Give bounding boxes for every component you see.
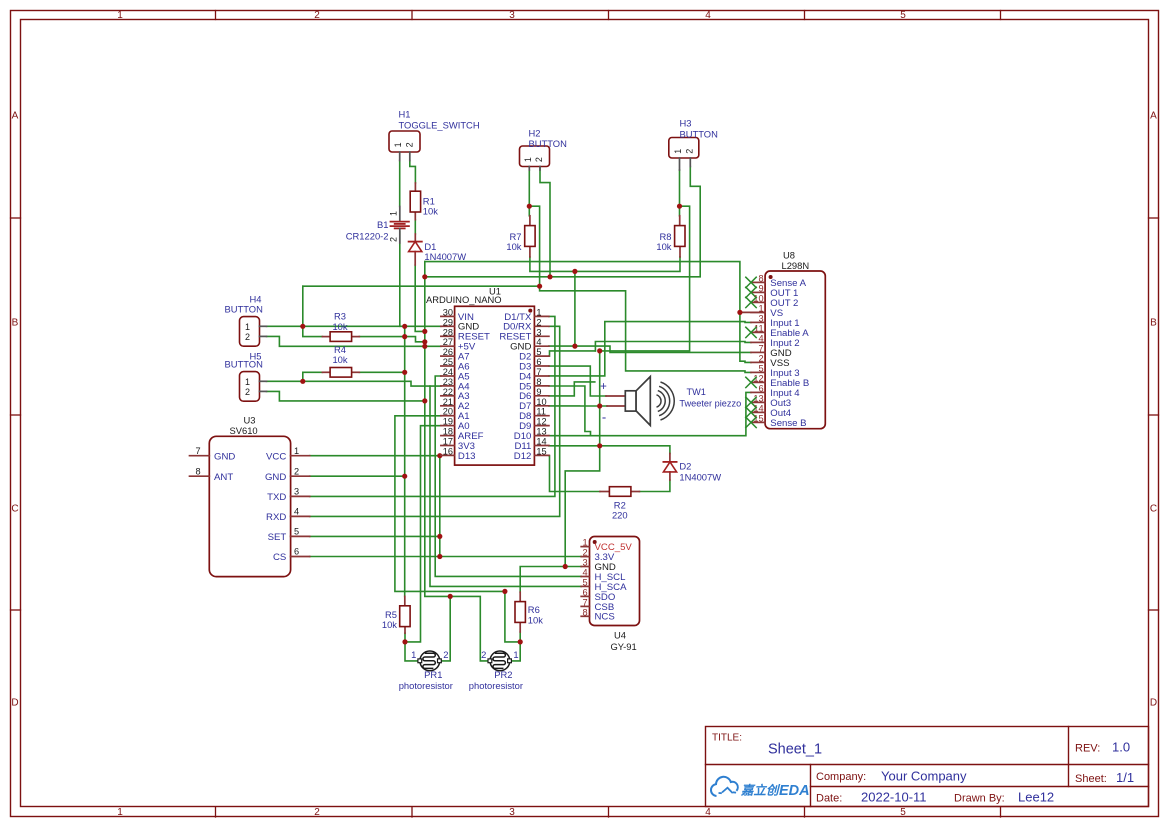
svg-text:8: 8 xyxy=(195,466,200,476)
svg-text:4: 4 xyxy=(705,807,711,818)
svg-text:3: 3 xyxy=(582,558,587,568)
D1 bottom stub xyxy=(414,252,416,265)
wire U3 GND2 to GND trunk xyxy=(310,475,405,477)
U4 pin 5 H_SCA stub xyxy=(581,585,589,587)
svg-text:1: 1 xyxy=(393,142,403,147)
svg-text:7: 7 xyxy=(536,367,541,377)
svg-text:U8: U8 xyxy=(783,249,795,260)
wire U1 D11 to diode D2 xyxy=(549,446,670,454)
U3 pin 1 VCC stub xyxy=(291,455,310,457)
svg-text:1: 1 xyxy=(389,211,399,216)
IC U1 ARDUINO_NANO box xyxy=(455,306,535,465)
junction dot (424.8,276.8) xyxy=(422,274,427,279)
svg-text:11: 11 xyxy=(536,407,546,417)
wire speaker net vertical xyxy=(599,351,601,446)
button H5 xyxy=(240,372,260,402)
D2 bottom stub xyxy=(669,472,671,480)
svg-text:Date:: Date: xyxy=(816,793,842,805)
U4 pin 8 NCS stub xyxy=(581,615,589,617)
D2 top stub xyxy=(669,454,671,462)
svg-text:B: B xyxy=(1150,318,1157,329)
U1 pin 14 D11 stub xyxy=(534,445,549,447)
U8 no-connect X on pin 9 xyxy=(746,287,756,297)
svg-text:TW1: TW1 xyxy=(687,387,706,397)
wire H4 pin1 branch to R3 left xyxy=(303,326,323,336)
svg-text:Sheet:: Sheet: xyxy=(1075,773,1107,785)
svg-text:2: 2 xyxy=(534,157,544,162)
svg-text:R6: R6 xyxy=(528,604,540,615)
svg-text:6: 6 xyxy=(758,383,763,393)
U8 pin 14 Out4 stub xyxy=(751,411,765,413)
svg-text:VCC: VCC xyxy=(266,451,286,462)
U1 pin 22 A3 stub xyxy=(441,395,455,397)
U1 pin 5 D2 stub xyxy=(534,355,549,357)
svg-text:U4: U4 xyxy=(614,630,626,641)
button H3 xyxy=(669,138,699,159)
svg-text:BUTTON: BUTTON xyxy=(529,138,567,149)
svg-text:17: 17 xyxy=(443,437,453,447)
zone tick top xyxy=(608,11,610,20)
U3 pin 5 SET stub xyxy=(291,535,310,537)
svg-text:1: 1 xyxy=(245,322,250,332)
svg-text:2: 2 xyxy=(389,237,399,242)
U1 pin 13 D10 stub xyxy=(534,435,549,437)
U8 pin 3 Input 1 stub xyxy=(751,321,765,323)
svg-text:5: 5 xyxy=(758,363,763,373)
junction dot (439.8,556.5) xyxy=(437,554,442,559)
photoresistor PR2 xyxy=(490,651,510,671)
wire H3 pin1 to R8 xyxy=(679,170,681,216)
U1 pin1 marker dot xyxy=(528,309,532,313)
junction dot (404.7,326.3) xyxy=(402,324,407,329)
R4 left stub xyxy=(322,371,330,373)
zone tick top xyxy=(411,11,413,20)
U8 pin 13 Out3 stub xyxy=(751,401,765,403)
svg-text:R1: R1 xyxy=(423,195,435,206)
U1 pin 6 D3 stub xyxy=(534,365,549,367)
U4 pin 4 H_SCL stub xyxy=(581,576,589,578)
svg-text:28: 28 xyxy=(443,327,453,337)
svg-text:GY-91: GY-91 xyxy=(611,641,637,652)
svg-text:H1: H1 xyxy=(399,109,411,120)
svg-text:2: 2 xyxy=(245,387,250,397)
wire R4 right to GND trunk xyxy=(359,371,404,373)
U1 pin 3 RESET stub xyxy=(534,335,549,337)
wire H4 pin2 to +5V row xyxy=(267,336,441,346)
svg-text:19: 19 xyxy=(443,417,453,427)
junction dot (404.7,476.2) xyxy=(402,474,407,479)
junction dot (439.8,536.4) xyxy=(437,534,442,539)
R6 bottom stub xyxy=(519,622,521,632)
svg-text:1: 1 xyxy=(582,538,587,548)
U1 pin 28 RESET stub xyxy=(441,335,455,337)
svg-text:2: 2 xyxy=(443,649,448,660)
svg-text:D: D xyxy=(11,698,18,709)
svg-text:BUTTON: BUTTON xyxy=(680,128,718,139)
svg-text:22: 22 xyxy=(443,387,453,397)
U8 pin 2 VSS stub xyxy=(751,361,765,363)
wire U1 D12 to R2 xyxy=(549,456,600,492)
svg-text:A: A xyxy=(12,111,19,122)
svg-text:10k: 10k xyxy=(528,614,543,625)
wire H3 branch to speaker net xyxy=(600,206,690,351)
junction dot (450.2,596.4) xyxy=(448,594,453,599)
U3 pin 6 CS stub xyxy=(291,556,310,558)
svg-text:1N4007W: 1N4007W xyxy=(679,472,721,483)
svg-text:U3: U3 xyxy=(244,414,256,425)
svg-text:18: 18 xyxy=(443,427,453,437)
svg-text:1: 1 xyxy=(523,157,533,162)
svg-text:Tweeter piezzo: Tweeter piezzo xyxy=(679,398,741,408)
wire speaker net to U4 GND xyxy=(565,446,600,567)
U8 pin 5 Input 3 stub xyxy=(751,371,765,373)
junction dot (599.7,350.9) xyxy=(597,348,602,353)
svg-text:Company:: Company: xyxy=(816,771,866,783)
U1 pin 17 3V3 stub xyxy=(441,445,455,447)
svg-text:B: B xyxy=(12,318,19,329)
svg-text:C: C xyxy=(1150,504,1157,515)
svg-text:EDA: EDA xyxy=(779,783,810,799)
svg-text:25: 25 xyxy=(443,357,453,367)
svg-text:1: 1 xyxy=(758,303,763,313)
wire U3 CS to U4 3.3V xyxy=(310,556,582,558)
U1 pin 11 D8 stub xyxy=(534,415,549,417)
svg-text:A: A xyxy=(1150,111,1157,122)
svg-text:RXD: RXD xyxy=(266,512,286,523)
wire +5V vertical trunk xyxy=(425,262,490,661)
svg-text:29: 29 xyxy=(443,317,453,327)
svg-text:13: 13 xyxy=(536,427,546,437)
toggle switch H1 xyxy=(389,131,420,152)
svg-text:10k: 10k xyxy=(382,619,397,630)
junction dot (302.8,326.3) xyxy=(300,324,305,329)
svg-text:photoresistor: photoresistor xyxy=(399,680,453,691)
U1 pin 15 D12 stub xyxy=(534,454,549,456)
wire U1 GND4 to U8 GND xyxy=(549,346,751,352)
wire H1 pin1 to battery B1 xyxy=(399,161,401,207)
svg-text:-: - xyxy=(602,410,606,425)
svg-text:6: 6 xyxy=(294,547,299,557)
wire U1 D2 to speaker junction xyxy=(549,351,596,356)
svg-text:CS: CS xyxy=(273,552,286,563)
svg-text:1: 1 xyxy=(117,10,123,21)
svg-text:9: 9 xyxy=(536,387,541,397)
title block divider horizontal 2 xyxy=(811,786,1149,788)
diode D1 xyxy=(409,242,422,252)
svg-text:4: 4 xyxy=(294,507,299,517)
svg-text:TITLE:: TITLE: xyxy=(712,733,742,744)
R4 right stub xyxy=(352,371,360,373)
R1 top stub xyxy=(414,183,416,191)
junction dot (539.6,286.2) xyxy=(537,284,542,289)
wire U3 RXD to U1 RX xyxy=(310,326,560,516)
svg-text:8: 8 xyxy=(582,607,587,617)
wire R5 bottom to PR1 xyxy=(405,633,419,661)
zone tick left xyxy=(11,609,21,611)
svg-text:10k: 10k xyxy=(332,321,347,332)
wire R3 right to +5V vertical xyxy=(359,337,425,342)
U8 pin 11 Enable A stub xyxy=(751,331,765,333)
wire H4 net link riser xyxy=(302,286,304,326)
svg-text:2: 2 xyxy=(684,149,694,154)
svg-text:1: 1 xyxy=(117,807,123,818)
svg-text:12: 12 xyxy=(536,417,546,427)
svg-text:4: 4 xyxy=(705,10,711,21)
svg-text:2: 2 xyxy=(314,807,320,818)
junction dot (302.8,381.3) xyxy=(300,379,305,384)
svg-text:15: 15 xyxy=(536,446,546,456)
junction dot (565.2,566.5) xyxy=(563,564,568,569)
wire VS top line xyxy=(425,262,751,363)
wire D1 anode drop xyxy=(415,265,425,331)
svg-text:TXD: TXD xyxy=(267,492,286,503)
wire H1-D1 common line xyxy=(425,167,700,277)
wire H5 pin1 feed xyxy=(267,380,303,382)
svg-text:4: 4 xyxy=(582,568,587,578)
U8 pin 8 Sense A stub xyxy=(751,281,765,283)
R7 top stub xyxy=(529,216,531,226)
svg-text:23: 23 xyxy=(443,377,453,387)
svg-text:D12: D12 xyxy=(514,451,532,462)
U4 pin 2 3.3V stub xyxy=(581,556,589,558)
svg-text:H2: H2 xyxy=(529,127,541,138)
svg-text:3: 3 xyxy=(294,487,299,497)
U1 pin 19 A0 stub xyxy=(441,425,455,427)
U8 pin1 marker dot xyxy=(769,275,773,279)
U3 pin 2 GND stub xyxy=(291,475,310,477)
U1 pin 21 A2 stub xyxy=(441,405,455,407)
junction dot (424.8,400.9) xyxy=(422,398,427,403)
zone tick bottom xyxy=(1000,807,1002,817)
button H2 xyxy=(520,146,550,167)
diode D2 xyxy=(663,462,676,472)
wire PR1 pin2 riser xyxy=(440,596,450,661)
svg-text:D2: D2 xyxy=(679,460,691,471)
svg-text:1: 1 xyxy=(513,649,518,660)
JLC EDA logo cloud xyxy=(711,777,738,796)
junction dot (520.2,641.9) xyxy=(518,639,523,644)
svg-text:16: 16 xyxy=(443,446,453,456)
svg-text:嘉立创: 嘉立创 xyxy=(740,784,781,798)
zone tick left xyxy=(11,217,21,219)
svg-text:TOGGLE_SWITCH: TOGGLE_SWITCH xyxy=(399,120,480,131)
svg-text:1/1: 1/1 xyxy=(1116,770,1134,785)
wire U1 D7 to speaker minus xyxy=(549,405,607,407)
IC U3 SV610 box xyxy=(209,436,290,576)
U1 pin 23 A4 stub xyxy=(441,385,455,387)
resistor R3 xyxy=(330,332,352,342)
svg-text:2022-10-11: 2022-10-11 xyxy=(861,790,927,805)
wire R7R8 to GND drop xyxy=(574,271,576,346)
svg-text:10k: 10k xyxy=(423,206,438,217)
svg-text:7: 7 xyxy=(582,597,587,607)
svg-text:30: 30 xyxy=(443,307,453,317)
svg-text:GND: GND xyxy=(214,451,235,462)
wire battery B1 to GND row xyxy=(399,232,401,327)
U4 pin 7 CSB stub xyxy=(581,605,589,607)
svg-text:3: 3 xyxy=(509,807,515,818)
svg-text:NCS: NCS xyxy=(595,612,615,623)
U8 pin 10 OUT 2 stub xyxy=(751,301,765,303)
junction dot (574.9,271.4) xyxy=(572,269,577,274)
R1 bottom stub xyxy=(414,212,416,220)
U8 pin 6 Input 4 stub xyxy=(751,391,765,393)
U8 pin 9 OUT 1 stub xyxy=(751,291,765,293)
junction dot (424.8,331.4) xyxy=(422,329,427,334)
svg-text:Drawn By:: Drawn By: xyxy=(954,793,1005,805)
svg-text:24: 24 xyxy=(443,367,453,377)
wire U1 D3 to speaker plus xyxy=(549,366,606,396)
svg-text:Your Company: Your Company xyxy=(881,769,967,784)
svg-text:5: 5 xyxy=(536,347,541,357)
svg-text:8: 8 xyxy=(536,377,541,387)
svg-text:4: 4 xyxy=(758,333,763,343)
wire R6 bottom to PR2 xyxy=(510,632,520,661)
junction dot (405,641.9) xyxy=(402,639,407,644)
svg-text:+: + xyxy=(600,381,607,393)
svg-text:1: 1 xyxy=(411,649,416,660)
svg-text:SV610: SV610 xyxy=(230,425,258,436)
U1 pin 25 A6 stub xyxy=(441,365,455,367)
U8 VS stub wire xyxy=(740,311,765,313)
U8 no-connect X on pin 13 xyxy=(746,397,756,407)
U1 pin 1 D1/TX stub xyxy=(534,315,549,317)
wire U4 GND to R6 top xyxy=(520,567,581,593)
junction dot (574.9,346.1) xyxy=(572,344,577,349)
U1 pin 9 D6 stub xyxy=(534,395,549,397)
wire R1 to D1 xyxy=(414,220,416,234)
svg-text:BUTTON: BUTTON xyxy=(225,304,263,315)
svg-text:H3: H3 xyxy=(680,118,692,129)
svg-text:2: 2 xyxy=(582,548,587,558)
svg-text:26: 26 xyxy=(443,347,453,357)
junction dot (599.7,445.8) xyxy=(597,443,602,448)
U8 pin 12 Enable B stub xyxy=(751,381,765,383)
junction dot (679.5,206.2) xyxy=(677,204,682,209)
svg-text:4: 4 xyxy=(536,337,541,347)
title block divider horizontal 1 xyxy=(706,764,1149,766)
svg-text:9: 9 xyxy=(758,283,763,293)
junction dot (404.7,372.3) xyxy=(402,370,407,375)
wire U1 D6 stub run xyxy=(549,382,595,396)
wire U3 VCC to U1 D13 xyxy=(310,455,441,457)
R7 bottom stub xyxy=(529,247,531,257)
resistor R5 xyxy=(400,606,410,627)
U8 no-connect X on pin 11 xyxy=(746,327,756,337)
wire GND vertical trunk xyxy=(404,326,406,596)
junction dot (599.7,406) xyxy=(597,403,602,408)
svg-text:6: 6 xyxy=(582,587,587,597)
svg-text:1: 1 xyxy=(294,446,299,456)
U3 pin 3 TXD stub xyxy=(291,495,310,497)
TW1 minus stub xyxy=(607,405,625,407)
U8 pin 1 VS stub xyxy=(751,311,765,313)
U3 pin 7 GND stub xyxy=(190,455,210,457)
svg-text:7: 7 xyxy=(195,446,200,456)
wire U8 Input2 drop xyxy=(595,342,751,351)
svg-text:REV:: REV: xyxy=(1075,743,1100,755)
junction dot (529.3,206.2) xyxy=(527,204,532,209)
junction dot (550.0,276.8) xyxy=(547,274,552,279)
zone tick top xyxy=(804,11,806,20)
svg-text:photoresistor: photoresistor xyxy=(469,680,523,691)
wire H5 pin2 to +5V trunk xyxy=(267,391,425,401)
svg-text:5: 5 xyxy=(294,527,299,537)
speaker TW1 arcs xyxy=(657,395,662,407)
U1 pin 12 D9 stub xyxy=(534,425,549,427)
svg-text:27: 27 xyxy=(443,337,453,347)
IC U4 GY-91 box xyxy=(590,537,640,626)
svg-text:L298N: L298N xyxy=(782,260,810,271)
svg-text:10k: 10k xyxy=(656,241,671,252)
zone tick top xyxy=(1000,11,1002,20)
svg-text:Sheet_1: Sheet_1 xyxy=(768,742,822,758)
wire diode D2 to R2 xyxy=(639,480,670,492)
zone tick top xyxy=(215,11,217,20)
wire SET-CS-D13 vertical xyxy=(439,456,441,557)
zone tick bottom xyxy=(215,807,217,817)
zone tick right xyxy=(1149,217,1159,219)
svg-text:C: C xyxy=(11,504,18,515)
U1 pin 7 D4 stub xyxy=(534,375,549,377)
svg-text:3: 3 xyxy=(509,10,515,21)
svg-text:8: 8 xyxy=(758,273,763,283)
wire H5-A4 line xyxy=(303,381,441,386)
svg-text:2: 2 xyxy=(536,317,541,327)
wire U1 D4 to U8 Input1 xyxy=(549,322,751,376)
svg-text:GND: GND xyxy=(265,472,286,483)
svg-text:3: 3 xyxy=(536,327,541,337)
R8 top stub xyxy=(679,216,681,226)
zone tick left xyxy=(11,414,21,416)
title block divider vertical rev column xyxy=(1068,727,1070,787)
wire H2 pin2 drop xyxy=(540,167,550,277)
svg-text:14: 14 xyxy=(536,437,546,447)
U1 pin 8 D5 stub xyxy=(534,385,549,387)
U1 pin 26 A7 stub xyxy=(441,355,455,357)
junction dot (439.8,455.7) xyxy=(437,453,442,458)
wire U3 TXD to U1 TX xyxy=(310,316,555,496)
svg-text:2: 2 xyxy=(481,649,486,660)
resistor R2 xyxy=(609,487,631,497)
U3 pin 8 ANT stub xyxy=(190,475,210,477)
svg-text:BUTTON: BUTTON xyxy=(225,359,263,370)
title block outline xyxy=(706,727,1149,807)
title block divider vertical logo cell xyxy=(810,765,812,807)
resistor R4 xyxy=(330,368,352,378)
zone tick bottom xyxy=(804,807,806,817)
U4 pin 6 SDO stub xyxy=(581,595,589,597)
U8 pin 15 Sense B stub xyxy=(751,421,765,423)
photoresistor PR1 xyxy=(420,651,440,671)
wire H2 pin1 to R7 xyxy=(528,170,530,216)
svg-text:5: 5 xyxy=(582,577,587,587)
TW1 plus stub xyxy=(606,395,625,397)
svg-text:CR1220-2: CR1220-2 xyxy=(346,230,389,241)
U4 pin 1 VCC_5V stub xyxy=(581,546,589,548)
junction dot (504.9,591.4) xyxy=(502,589,507,594)
U8 no-connect X on pin 10 xyxy=(746,297,756,307)
U1 pin 24 A5 stub xyxy=(441,375,455,377)
wire U1 A5 to U4 H_SCL xyxy=(435,376,581,576)
D1 top stub xyxy=(414,234,416,242)
zone tick right xyxy=(1149,609,1159,611)
R3 left stub xyxy=(322,336,330,338)
svg-text:R5: R5 xyxy=(385,609,397,620)
U1 pin 18 AREF stub xyxy=(441,435,455,437)
resistor R8 xyxy=(675,226,685,247)
svg-text:1: 1 xyxy=(673,149,683,154)
